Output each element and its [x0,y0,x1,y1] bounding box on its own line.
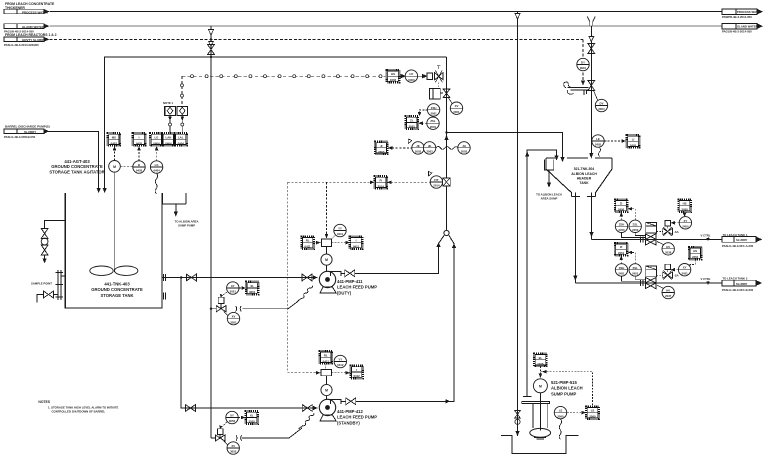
instrument LAH-0404 [162,133,175,146]
node: standby discharge arrow [446,399,451,403]
wire: ZSH2 ZSL2 stems [622,276,646,281]
valve gland drop lower [588,81,595,91]
wire: process water header [50,11,723,13]
node: open flow arrow [208,30,213,36]
wire: M to MS dashed [113,146,117,161]
svg-text:STORAGE TANK: STORAGE TANK [100,293,133,298]
svg-text:B: B [138,163,140,167]
node: gravity slurry inlet flag [4,37,50,47]
instrument ZI box riser [405,116,418,129]
svg-text:0403: 0403 [111,141,118,145]
pump 441-PMP-412 [319,399,341,421]
node: process water inlet flag [4,9,50,14]
node: agitator label [49,159,104,174]
svg-text:2004: 2004 [598,107,605,111]
svg-text:441-PMP-412: 441-PMP-412 [337,409,364,414]
tank 521-TNK-504 shell [546,158,612,197]
svg-text:3051: 3051 [230,290,237,294]
svg-text:-SA: -SA [674,274,679,278]
node: pilot solenoid sq line2 [665,264,671,272]
svg-text:PASLG-4B-3-0FC-B-200: PASLG-4B-3-0FC-B-200 [722,288,754,292]
instrument ZI box line2 [615,243,628,256]
node: sump pit [501,436,579,454]
svg-text:XV: XV [231,444,235,448]
wire: XY to XI dashed [239,286,246,290]
wire: combined discharge riser [446,57,448,231]
svg-text:0411: 0411 [337,232,344,236]
instrument ZI box line1 [615,199,628,212]
svg-text:MS: MS [112,135,116,139]
junction [210,308,212,310]
wire: XY1 to solenoid dashed [671,221,680,225]
svg-text:M: M [113,165,116,169]
svg-text:0411: 0411 [305,245,312,249]
node: flanges before pinch valve 2 [641,280,644,286]
node: actuator box recirc [430,88,444,99]
node: arrow into tank [97,188,101,193]
svg-text:SUMP PUMP: SUMP PUMP [178,224,195,228]
wire: duty suction line [162,277,314,279]
wire: sample drop [44,255,46,260]
node: to albion leach area sump label [536,192,562,200]
instrument HS box line2 [689,247,702,260]
instrument PE bubble b [423,142,435,154]
svg-text:FIT: FIT [434,178,438,182]
wire: barrel slurry feed [49,131,99,189]
wire: XY2 to solenoid dashed [219,422,227,429]
svg-text:ZSH: ZSH [619,222,625,226]
svg-text:2402: 2402 [595,143,602,147]
instrument RL box above standby [320,351,333,364]
wire: XY2 to solenoid dashed [671,268,679,272]
wire: M to S dashed [120,165,133,167]
svg-text:0412: 0412 [353,374,360,378]
node: pilot 3way line1 [657,227,679,236]
instrument J box duty [350,236,363,249]
svg-text:XY: XY [684,219,688,223]
svg-text:HV: HV [666,245,670,249]
node: arrow into header tank gland [589,153,593,159]
wire: gland water drop leg [210,26,212,438]
wire: ZSH1 to ZI1 dashed [620,212,624,220]
instrument HV bubble line2 [657,285,674,299]
node: arrow left on interlock dashed [542,370,547,374]
instrument DV bubble at valve [594,91,608,112]
junction [210,38,212,40]
wire: PI dashed link [388,146,412,150]
svg-text:SUMP PUMP: SUMP PUMP [551,391,576,396]
svg-text:LS: LS [591,409,595,413]
instrument LIT-0404 bubble [150,161,162,173]
svg-text:HV: HV [666,289,670,293]
node: pilot solenoid sq line1 [665,221,671,229]
instrument HS box line1 [678,199,691,212]
node: YS box on duty motor [322,239,332,247]
instrument YY circle standby [334,355,346,367]
svg-text:2451: 2451 [681,271,688,275]
valve on gland drop [208,45,215,55]
svg-text:0412: 0412 [337,363,344,367]
instrument ZSL bubble line2 [629,264,641,276]
wire: gland water header [50,25,723,27]
wire: line to leach tank 2 [575,282,722,284]
node: tank outlet nozzle flanges [164,274,166,281]
svg-text:2014: 2014 [378,184,385,188]
valve duty suction at pump [302,274,312,281]
wire: XY2 to XI2 dashed [238,416,245,420]
instrument PI box [375,142,388,155]
instrument LI-0404 [150,133,163,146]
wire: dashed YS2 to J2 box [332,371,351,375]
drain valve at standpipe [37,291,58,302]
svg-text:TANK: TANK [579,181,589,185]
svg-text:DY: DY [581,61,585,65]
valve standby discharge [346,398,356,405]
node: open arrow gland drop [589,37,594,42]
svg-text:LI: LI [632,137,635,141]
svg-text:521-PMP-515: 521-PMP-515 [551,380,578,385]
svg-text:LAL: LAL [178,135,184,139]
wire: sample line from tank [45,221,66,230]
svg-text:ZSH: ZSH [619,266,625,270]
instrument XV bubble recirc [449,98,463,115]
svg-text:441-PMP-411: 441-PMP-411 [337,279,363,284]
svg-text:0403: 0403 [136,169,143,173]
node: arrow up on sump return [525,151,529,157]
wire: PE squiggle across riser [436,147,458,150]
svg-text:PASLG-4B-3-2014-0203/20: PASLG-4B-3-2014-0203/20 [4,43,39,47]
instrument XI box duty flush [246,282,259,295]
valve standby suction isolation [185,405,195,412]
node: flanges before pinch valve 1 [641,236,644,242]
wire: standby flush line and hose [211,413,314,438]
svg-text:V CTRL: V CTRL [701,277,711,281]
wire: diamond left to LAH [168,115,172,133]
valve XV duty flush [216,304,226,312]
wire: LS bubble to LS box dashed [567,411,586,415]
instrument ZSH bubble riser [427,104,439,116]
svg-text:1016: 1016 [537,362,544,366]
svg-text:ZI: ZI [620,245,623,249]
wire: HS to HY arrow [399,74,405,78]
node: leach tank 2 flag [722,276,762,291]
svg-text:SAMPLE POINT: SAMPLE POINT [31,282,52,286]
instrument ZSL bubble line1 [629,220,641,232]
instrument HS left of duty motor [301,236,314,249]
svg-text:2001: 2001 [430,112,437,116]
valve recirc auto on riser [443,89,450,98]
node: open flow arrow process drop [515,14,520,20]
valve XV standby flush [215,434,225,441]
svg-text:2037: 2037 [665,294,672,298]
wire: branch to duty YS [325,182,329,238]
svg-text:LAH: LAH [166,135,172,139]
wire: FE dashed link [288,181,430,185]
wire: HS1 to XY1 dashed [683,212,687,217]
node: seal trough assembly [564,82,589,95]
svg-text:RL: RL [324,353,328,357]
instrument ZSH bubble line2 [615,264,627,276]
svg-text:HS: HS [683,202,687,206]
svg-text:LG: LG [155,163,159,167]
svg-text:XV: XV [455,104,459,108]
svg-text:(STANDBY): (STANDBY) [337,420,360,425]
node: Y piece [439,230,455,243]
svg-text:FI: FI [379,178,382,182]
svg-text:2001: 2001 [453,110,460,114]
svg-text:(DUTY): (DUTY) [337,290,352,295]
motor M agitator [109,161,121,173]
node: note diamond left [165,106,176,115]
svg-text:3052: 3052 [230,450,237,454]
svg-text:STORAGE TANK AGITATOR: STORAGE TANK AGITATOR [49,169,104,174]
svg-text:2001: 2001 [409,125,416,129]
valve duty suction isolation [186,274,196,281]
svg-text:GLAND WATER: GLAND WATER [737,25,758,29]
svg-text:2451: 2451 [632,272,639,276]
node: tundish on gland drop [587,17,595,26]
svg-text:ZSH: ZSH [431,106,437,110]
instrument HY bubble [405,70,417,82]
svg-text:0403: 0403 [390,78,397,82]
wire: outlet 1 drop [591,193,593,240]
svg-text:HS: HS [391,72,395,76]
instrument LS bubble sump [554,406,566,418]
motor M standby pump [321,376,332,399]
wire: software link horizontal [182,75,388,78]
svg-text:XY: XY [230,414,234,418]
svg-text:2451: 2451 [618,251,625,255]
svg-text:0412: 0412 [323,359,330,363]
svg-text:M: M [325,389,328,393]
wire: XY to solenoid dashed [220,292,227,297]
wire: LE to LI dashed [604,139,626,143]
svg-text:ZI: ZI [620,202,623,206]
svg-text:SLURRY: SLURRY [736,238,748,242]
svg-text:LEACH FEED PUMP: LEACH FEED PUMP [337,285,377,290]
svg-text:HS: HS [693,249,697,253]
wire: gland drop at header tank [590,26,592,156]
svg-text:RL: RL [306,239,310,243]
svg-text:XY: XY [683,266,687,270]
svg-text:0404: 0404 [153,169,160,173]
svg-text:2003: 2003 [415,150,422,154]
svg-text:BARREL DISCHARGE PUMP(S): BARREL DISCHARGE PUMP(S) [5,124,50,128]
wire: overflow to area sump [175,204,177,213]
instrument LS box sump [586,406,599,419]
svg-text:2451: 2451 [692,255,699,259]
valve duty discharge [345,270,355,277]
node: magmeter on riser [443,178,451,186]
node: open flow arrow [209,42,214,47]
wire: EL to motor dashed [539,366,543,378]
node: process water outlet flag [722,9,763,19]
instrument HS box [387,70,400,83]
node: arrow outlet1 [589,232,593,237]
node: leach tank 1 flag [722,233,762,248]
node: gland water outlet flag [722,23,763,33]
instrument XY duty flush [227,282,239,294]
valve standby suction at pump [302,405,312,412]
svg-text:YY: YY [338,358,342,362]
pump 441-PMP-411 [319,271,341,293]
svg-text:ALBION LEACH: ALBION LEACH [571,172,597,176]
node: arrow into YS2 [316,371,321,375]
svg-text:3052: 3052 [249,420,256,424]
svg-text:521-TNK-504: 521-TNK-504 [574,167,595,171]
svg-text:2451: 2451 [618,272,625,276]
svg-text:SLURRY: SLURRY [736,282,748,286]
instrument S-0403 bubble [133,161,145,173]
node: header tank label [571,167,597,185]
node: V CTRL note line2 [701,277,711,284]
wire: ZSL1 to ZI1 dashed [628,207,636,220]
node: FROM LEACH CONCENTRATE THICKENER label [5,2,55,10]
node: arrow into pit [515,431,519,437]
svg-text:2001: 2001 [430,125,437,129]
instrument ZSH bubble line1 [615,220,627,232]
node: pilot 3way line2 [657,271,679,280]
instrument HS-0403 [108,133,121,146]
svg-text:0403: 0403 [136,141,143,145]
node: 3-way pilot valve [435,66,444,88]
svg-text:JE: JE [416,144,420,148]
node: header tank outlet flanges [572,196,596,198]
svg-text:DV: DV [600,102,604,106]
junction [210,56,212,58]
svg-text:HY: HY [409,72,413,76]
svg-text:M: M [539,384,542,388]
wire: gravity slurry dashed header [50,38,584,40]
svg-text:LEACH FEED PUMP: LEACH FEED PUMP [337,415,377,420]
svg-text:2036: 2036 [665,251,672,255]
node: V CTRL note line1 [701,234,711,241]
svg-text:-SA: -SA [674,230,679,234]
wire: line to leach tank 1 [592,238,723,240]
svg-text:GLAND WATER: GLAND WATER [22,25,45,29]
svg-text:ALBION LEACH: ALBION LEACH [551,386,583,391]
node: to albion area sump label [175,220,199,228]
wire: ZSH to ZI dashed [418,110,428,116]
svg-text:2450: 2450 [681,208,688,212]
instrument LE bubble header tank [592,135,604,147]
wire: outlet 2 drop [574,193,576,283]
wire: HS2 to XY2 dashed [690,260,695,266]
wire: dashed YS to J box [332,241,351,245]
instrument LI box header tank [627,135,640,148]
svg-text:3051: 3051 [230,320,237,324]
instrument FE box [374,176,387,189]
motor M duty pump [321,246,332,271]
wire: HY to solenoid arrow [418,74,427,78]
wire: software link drop to note diamond [181,76,184,106]
wire: recirculation header to tank [105,57,447,190]
instrument EL box sump [534,354,547,367]
instrument YY circle duty [334,224,346,236]
node: duty discharge arrow up [436,242,440,247]
svg-text:XY: XY [231,284,235,288]
svg-text:XL: XL [250,414,254,418]
svg-text:NOTES: NOTES [38,400,50,404]
wire: YS to YY diag [332,235,336,239]
svg-text:LG: LG [154,135,158,139]
wire: diamond right to LAL [181,115,185,133]
wire: ZSH2 to ZI2 dashed [620,256,624,264]
wire: S to I dashed [137,146,141,161]
node: YS box on standby motor [321,369,332,375]
wire: ZSH1 ZSL1 stems [622,233,646,238]
svg-text:2450: 2450 [682,225,689,229]
svg-text:2450: 2450 [618,208,625,212]
junction: feed takeoff [445,131,447,133]
wire: ZSL to ZI dashed [418,121,427,125]
svg-text:SLURRY: SLURRY [24,130,36,134]
agitator shaft [113,172,115,272]
svg-text:JI: JI [380,144,383,148]
node: sump discharge flange [523,396,532,398]
node: actuator box line2 valve [646,266,657,277]
svg-text:ZSL: ZSL [430,119,436,123]
svg-text:0404: 0404 [178,141,185,145]
svg-text:CONTROLLED SHUTDOWN OF BARREL: CONTROLLED SHUTDOWN OF BARREL [52,410,106,414]
wire: duty discharge line [341,246,439,274]
instrument PE bubble a [412,142,424,154]
svg-text:YY: YY [338,227,342,231]
node: arrow gravity into trough [581,81,585,86]
node: sample ball valve circle [41,238,48,245]
instrument DY bubble gravity [577,58,589,70]
node: duty pump label [337,279,377,295]
wire: LIT capillary squiggle [155,173,158,194]
instrument XY bubble line1 [679,217,691,229]
valve gland drop upper [588,44,595,54]
junction suction tee [180,276,182,278]
node: overflow box header tank [545,159,554,187]
svg-text:ZL: ZL [410,119,414,123]
wire: standby discharge line [341,247,454,402]
svg-text:0404: 0404 [153,141,160,145]
valve sample lower [41,245,48,255]
svg-text:2003: 2003 [378,150,385,154]
svg-text:2560: 2560 [557,414,564,418]
node: note diamond right [177,106,188,115]
svg-text:441-TNK-403: 441-TNK-403 [104,282,130,287]
agitator impeller [90,266,138,275]
node: P flag at FIT [429,172,433,177]
node: arrow feed into tank [560,157,564,162]
svg-text:XL: XL [250,284,254,288]
node: actuator box line1 valve [646,223,657,234]
instrument HV bubble line1 [657,242,674,256]
svg-text:M: M [325,258,328,262]
node: gland water inlet flag [4,24,50,34]
svg-text:0404: 0404 [165,141,172,145]
instrument PH bubble [458,142,470,154]
wire: dashed HS to YS [314,241,321,245]
svg-text:V CTRL: V CTRL [701,234,711,238]
node: standby riser arrow up [452,243,456,248]
svg-text:LE: LE [596,137,600,141]
wire: duty flush line and hose [211,286,312,309]
instrument LAL-0404 [174,133,187,146]
node: tank label [91,282,143,298]
svg-text:JH: JH [462,144,466,148]
svg-text:0411: 0411 [353,245,360,249]
svg-text:LS: LS [559,409,563,413]
svg-text:0910: 0910 [580,66,587,70]
node: flex coupling standby flush [236,435,242,441]
valve pinch line 1 [645,234,656,245]
